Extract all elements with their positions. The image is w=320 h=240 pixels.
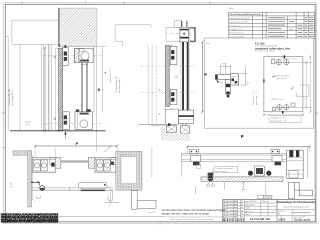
svg-text:5: 5 [223, 201, 224, 203]
svg-text:u 8: u 8 [10, 187, 13, 189]
svg-text:70x8x-xx0x: 70x8x-xx0x [293, 218, 310, 222]
svg-text:x0: x0 [234, 210, 236, 212]
svg-text:00: 00 [241, 210, 243, 212]
svg-text:im Omega WL 2: im Omega WL 2 [12, 90, 14, 106]
svg-text:x02 B: x02 B [279, 218, 286, 222]
svg-text:Blatt 1: Blatt 1 [246, 213, 251, 216]
svg-text:F.Glas T1: F.Glas T1 [230, 29, 243, 31]
svg-text:acc. Fugenplan/DIN Mkg: acc. Fugenplan/DIN Mkg [255, 45, 277, 47]
svg-text:Brananpflege für Industriezwec: Brananpflege für Industriezwecke [277, 201, 316, 204]
svg-text:Systemprofile 3M: Systemprofile 3M [115, 76, 118, 92]
svg-text:Systemprofile 3M: Systemprofile 3M [8, 89, 11, 105]
svg-text:Aufmass / Bestellmasse (Stk): Aufmass / Bestellmasse (Stk) (Stk) Glast… [230, 13, 262, 16]
svg-text:glass high ~ 1 %: glass high ~ 1 % [256, 90, 258, 105]
svg-text:Trosperstime: Trosperstime [230, 35, 246, 38]
svg-text:7: 7 [138, 122, 139, 124]
svg-text:a: a [225, 217, 226, 219]
svg-text:3: 3 [223, 207, 224, 209]
svg-text:00: 00 [241, 213, 243, 215]
svg-text:1: 1 [223, 213, 224, 215]
svg-text:a: a [225, 213, 226, 215]
svg-text:tol ±2: tol ±2 [25, 123, 29, 126]
svg-text:f Schaken (verengan): f Schaken (verengan) [215, 167, 233, 170]
svg-text:70 80: 70 80 [222, 64, 228, 66]
svg-text:nichts vergeben zu gut ein be: nichts vergeben zu gut ein besten mög mi… [170, 218, 214, 221]
svg-text:∅5: ∅5 [305, 97, 308, 100]
svg-text:Systemglas T30: Systemglas T30 [109, 68, 112, 83]
svg-text:mindest packen allgült Samml: mindest packen allgült Sammlung schraube… [167, 216, 225, 219]
svg-text:B+0000 000 00: B+0000 000 00 [223, 220, 245, 222]
svg-text:abtragen (alt) stein, (nght: abtragen (alt) stein, (nght) spute ein v… [162, 213, 210, 216]
svg-text:Fa. Frie.Nfd. Fier: Fa. Frie.Nfd. Fier [250, 217, 270, 221]
svg-text:Finsterstime: Finsterstime [230, 32, 245, 35]
svg-text:x0: x0 [234, 217, 236, 219]
svg-text:gez. 00.00.00: gez. 00.00.00 [246, 201, 257, 203]
svg-text:P: P [76, 142, 79, 146]
svg-text:B: B [98, 88, 101, 92]
svg-text:Als warentafel richen Danke: Als warentafel richen Danke nach fra Dan… [162, 209, 227, 212]
svg-text:x0: x0 [234, 201, 236, 203]
svg-text:≈0.50: ≈0.50 [25, 122, 31, 124]
svg-text:Deckel-ver. N: W²: Deckel-ver. N: W² [230, 21, 248, 24]
svg-text:glass panel ~1 %: glass panel ~1 % [271, 120, 287, 122]
svg-text:x0: x0 [234, 204, 236, 206]
svg-text:F.Glas: F.Glas [230, 25, 240, 27]
svg-text:B: B [204, 73, 207, 77]
svg-text:A3: A3 [278, 213, 280, 216]
svg-text:Anriss geschliffen: Anriss geschliffen [275, 74, 290, 77]
svg-text:b: b [225, 207, 226, 209]
svg-text:c: c [225, 204, 226, 206]
svg-text:4: 4 [223, 204, 224, 206]
svg-text:entry text for sliding glass d: entry text for sliding glass doors [283, 205, 310, 208]
svg-text:gepr. 00.00: gepr. 00.00 [246, 204, 255, 206]
svg-text:00: 00 [241, 217, 243, 219]
svg-text:im Omega WL 2: im Omega WL 2 [119, 77, 121, 93]
svg-text:excl. test weight 80kg: excl. test weight 80kg [255, 50, 274, 53]
svg-text:x0: x0 [234, 213, 236, 215]
svg-text:c: c [225, 201, 226, 203]
svg-text:b: b [225, 210, 226, 212]
svg-text:x0: x0 [234, 207, 236, 209]
svg-text:Mst. 1:2: Mst. 1:2 [246, 210, 252, 213]
svg-text:30: 30 [10, 184, 12, 186]
svg-text:P: P [241, 134, 244, 139]
svg-text:gem. DIN: gem. DIN [148, 212, 156, 214]
svg-text:Norm: Norm [246, 208, 251, 210]
svg-text:nach 3 warten: nach 3 warten [215, 170, 227, 173]
svg-text:ALLE MASSE AM BAU ZU PRUEFEN T: ALLE MASSE AM BAU ZU PRUEFEN TOLERANZEN … [1, 220, 59, 224]
svg-text:u: u [34, 201, 35, 203]
svg-text:00: 00 [241, 201, 243, 203]
svg-text:00: 00 [241, 207, 243, 209]
svg-text:edge ground: edge ground [276, 77, 287, 80]
svg-text:Deckel-ver. N: 4 S.T.: Deckel-ver. N: 4 S.T. [230, 17, 250, 20]
svg-text:00: 00 [241, 204, 243, 206]
svg-text:Scheibe ~1 – %: Scheibe ~1 – % [271, 118, 285, 120]
svg-text:M 1:2.5: M 1:2.5 [278, 211, 284, 213]
svg-text:203.: 203. [289, 29, 293, 31]
svg-text:a a: a a [272, 98, 276, 100]
svg-text:Name: Name [262, 201, 267, 203]
